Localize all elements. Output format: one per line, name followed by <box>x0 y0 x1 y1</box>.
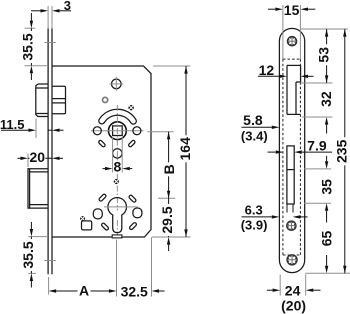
square slot near faceplate <box>82 221 92 230</box>
dimension 20 arrows <box>18 157 64 160</box>
dimension label 164 <box>177 135 193 162</box>
right hole beside follower <box>133 127 141 135</box>
cylinder horizontal centreline <box>104 206 138 208</box>
dimension label 11.5 <box>0 117 24 132</box>
dimension A extension lines <box>49 237 152 296</box>
dimension 164 line and arrows <box>184 66 187 237</box>
svg-text:7.9: 7.9 <box>307 137 327 153</box>
adjustment screw (cross) <box>128 105 133 110</box>
label 6.3 (3.9) with leader <box>241 203 308 233</box>
follower horizontal centreline <box>91 130 144 132</box>
dimension 15 arrows <box>268 8 316 11</box>
dimension label 32.5 <box>121 283 148 299</box>
vertical centreline <box>116 105 118 238</box>
dimension 24 arrows <box>267 289 321 292</box>
svg-text:(3.4): (3.4) <box>241 129 268 144</box>
dimension label 20 <box>30 149 46 165</box>
dimension 65 arrows <box>325 255 328 273</box>
cross screw near faceplate bottom <box>80 216 85 221</box>
dimension 235 line and arrows <box>343 29 346 273</box>
svg-text:65: 65 <box>319 231 335 247</box>
faceplate screw position tick top <box>44 42 56 44</box>
dimension 35.5 bottom arrows <box>30 222 33 288</box>
latch bolt head (in front of faceplate) <box>36 84 48 117</box>
dimension 35.5 top ticks <box>25 28 49 65</box>
dimension 15 extension lines <box>283 5 301 59</box>
slot upper-left of cylinder <box>98 194 106 202</box>
svg-text:3: 3 <box>64 0 71 13</box>
oval slot near faceplate <box>92 208 94 210</box>
left hole beside follower <box>93 127 101 135</box>
dimension label 8 <box>113 158 121 174</box>
oval hole left of cylinder <box>93 209 102 219</box>
dimension 164 extension lines <box>152 66 191 237</box>
dimension label 24 <box>285 283 301 299</box>
dimension 35.5 bottom ticks <box>28 237 48 274</box>
top faceplate screw <box>287 37 296 46</box>
dimension label 35.5 bottom <box>20 239 36 271</box>
slot upper-right of cylinder <box>128 195 136 203</box>
svg-text:235: 235 <box>333 139 349 163</box>
dimension A line and arrows <box>49 289 117 292</box>
svg-text:A: A <box>79 282 89 298</box>
dimension label 12 <box>259 62 275 78</box>
top fixing screw hole <box>109 77 123 91</box>
dimension label 35 <box>319 176 335 197</box>
svg-text:B: B <box>161 164 177 174</box>
svg-text:32.5: 32.5 <box>121 283 148 299</box>
svg-text:53: 53 <box>315 47 331 63</box>
svg-text:12: 12 <box>259 62 275 78</box>
crescent slot above follower <box>99 109 136 124</box>
latch bolt body behind faceplate <box>52 86 66 114</box>
svg-text:5.8: 5.8 <box>243 112 263 128</box>
dimension label 3 <box>64 0 71 13</box>
notch in case bottom under cylinder <box>112 235 122 238</box>
cross screw between follower and cylinder <box>114 179 119 184</box>
dimension 3 extension lines <box>48 6 52 29</box>
label 7.9 with leader <box>268 137 333 153</box>
slot lower-left of follower <box>98 140 106 148</box>
dimension label 53 <box>315 44 331 65</box>
svg-text:20: 20 <box>30 149 46 165</box>
dimension label B <box>161 162 177 176</box>
dimension 8 extension lines <box>113 137 123 173</box>
euro-profile cylinder hole <box>108 198 127 233</box>
chain extension lines right view <box>301 29 350 273</box>
dimension 32 arrows <box>325 117 328 134</box>
svg-text:164: 164 <box>177 137 193 161</box>
deadbolt opening extension stubs <box>287 204 293 213</box>
svg-text:35: 35 <box>319 179 335 195</box>
svg-text:11.5: 11.5 <box>0 117 24 132</box>
svg-text:(3.9): (3.9) <box>241 217 268 232</box>
faceplate side view (3 mm strip) <box>48 29 52 275</box>
dimension label 15 <box>284 2 300 18</box>
dimension 24 extension lines <box>280 275 306 296</box>
faceplate screw position tick bottom <box>44 260 56 262</box>
dimension label 35.5 top <box>20 31 36 63</box>
dimension 12 leader and arrows <box>258 75 314 78</box>
svg-text:29.5: 29.5 <box>159 206 175 233</box>
dimension 11.5 extension line <box>35 119 37 139</box>
svg-text:32: 32 <box>318 91 334 107</box>
label 5.8 (3.4) with leader <box>241 112 279 144</box>
dimension 3 arrows <box>31 9 71 12</box>
dimension 53 line and arrows <box>325 29 328 83</box>
svg-text:8: 8 <box>114 158 122 174</box>
dimension 35.5 top arrows <box>30 13 33 80</box>
svg-text:35.5: 35.5 <box>20 241 36 268</box>
dimension B reference ticks <box>148 132 176 199</box>
deadbolt opening in faceplate <box>287 146 294 204</box>
svg-text:6.3: 6.3 <box>245 203 263 218</box>
slot lower-right of cylinder <box>129 222 137 230</box>
dimension label A <box>79 282 89 298</box>
dimension label 235 <box>333 137 349 165</box>
middle section arrows <box>325 156 328 169</box>
handle follower circle <box>109 122 127 140</box>
lock case hidden outline (dashed) <box>283 59 301 255</box>
dimension label (20) <box>281 297 306 313</box>
deadbolt (20 mm) <box>28 169 48 208</box>
dimension label 65 <box>319 228 335 249</box>
dimension 32.5 arrows <box>152 289 165 292</box>
oval hole right of cylinder <box>133 208 142 218</box>
dimension B line and arrows <box>167 132 170 199</box>
svg-text:15: 15 <box>284 2 300 18</box>
dimension 11.5 arrows <box>1 129 64 132</box>
latch opening in faceplate <box>287 65 301 114</box>
lock case outline <box>52 66 151 237</box>
dimension 8 arrows <box>103 167 133 170</box>
dimension label 32 <box>318 89 334 110</box>
dimension 35 arrows <box>325 203 328 222</box>
faceplate front outline (rounded ends) <box>279 28 304 272</box>
hole below follower <box>113 149 122 158</box>
svg-text:(20): (20) <box>281 297 306 313</box>
dimension label 29.5 <box>159 204 175 236</box>
follower square spindle hole (8 mm) <box>113 126 123 136</box>
dimension 20 extension line <box>27 154 29 168</box>
bottom faceplate screw <box>287 255 297 265</box>
slot lower-right of follower <box>128 140 136 148</box>
dimension 29.5 line and arrow <box>167 198 170 251</box>
middle faceplate screw <box>287 221 296 230</box>
pin hole (grey ring) <box>103 97 108 102</box>
svg-text:24: 24 <box>285 283 301 299</box>
svg-text:35.5: 35.5 <box>20 33 36 60</box>
slot lower-left of cylinder <box>101 222 109 230</box>
